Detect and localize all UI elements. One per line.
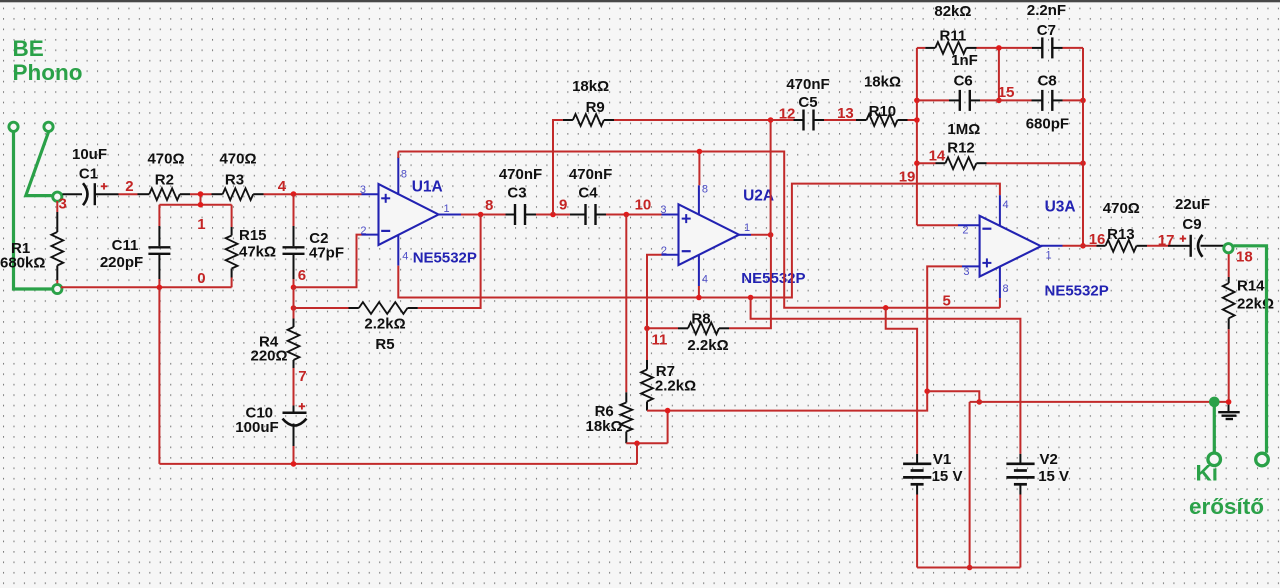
wire node 16 (1063, 245, 1097, 247)
wire node 2 (119, 193, 138, 195)
wire V2 bottom (1019, 495, 1021, 568)
wire junction down to rail (636, 443, 638, 464)
ground branch wire (927, 391, 979, 402)
wire between R2 and R3 (190, 193, 212, 195)
junction dot V- U2A pin4 (696, 295, 702, 301)
C1 plus polarity mark (101, 185, 108, 187)
svg-text:9: 9 (559, 197, 567, 214)
svg-text:4: 4 (1003, 199, 1009, 211)
wire up to R7 ground line (667, 411, 669, 444)
svg-text:Ki: Ki (1196, 461, 1219, 486)
svg-text:680pF: 680pF (1026, 116, 1069, 133)
svg-text:47kΩ: 47kΩ (239, 244, 276, 261)
wire node 10 (606, 214, 662, 216)
svg-text:C11: C11 (112, 237, 139, 254)
connector Ki ground terminal (1208, 453, 1221, 466)
svg-text:470Ω: 470Ω (147, 151, 184, 168)
svg-text:2.2kΩ: 2.2kΩ (364, 316, 405, 333)
resistor R13 (470) (1097, 245, 1106, 247)
node 0 rail bottom (159, 463, 637, 465)
wire V1 bottom (916, 495, 918, 568)
svg-text:R3: R3 (225, 172, 244, 189)
ground symbol (1218, 402, 1240, 419)
svg-text:U2A: U2A (743, 187, 774, 204)
battery V1 (15V) (903, 454, 931, 495)
wire node 6 down (293, 287, 295, 308)
wire node 9 up to R9 (553, 120, 563, 215)
node 11 junction dot (644, 326, 650, 332)
capacitor C7 (2.2nF) (999, 47, 1032, 49)
svg-text:U1A: U1A (412, 178, 443, 195)
connector node 18 terminal (1224, 244, 1233, 253)
svg-text:17: 17 (1158, 232, 1175, 249)
capacitor C10 (100uF polarized) (293, 406, 295, 413)
svg-text:1: 1 (197, 216, 205, 233)
svg-text:15 V: 15 V (932, 468, 963, 485)
junction dot C6 row left (914, 98, 920, 104)
green junction dot ground connector (1209, 397, 1220, 408)
svg-text:3: 3 (660, 204, 666, 216)
svg-text:18kΩ: 18kΩ (864, 74, 901, 91)
svg-text:C6: C6 (954, 72, 973, 89)
capacitor C2 (47pF) (293, 194, 295, 226)
EQ network right vertical (1082, 48, 1084, 246)
svg-text:NE5532P: NE5532P (1045, 283, 1109, 300)
svg-text:3: 3 (963, 266, 969, 278)
svg-text:4: 4 (702, 274, 708, 286)
capacitor C11 (220pF) (158, 205, 160, 226)
svg-text:8: 8 (401, 169, 407, 181)
svg-text:NE5532P: NE5532P (741, 270, 805, 287)
junction dot R6 bottom (634, 441, 640, 447)
svg-text:Phono: Phono (13, 60, 83, 85)
wire node 9 (536, 214, 570, 216)
svg-text:0: 0 (197, 270, 205, 287)
connector Ki signal terminal (1256, 453, 1269, 466)
svg-text:R9: R9 (586, 99, 605, 116)
wire node 4 to U1A +input (264, 193, 362, 195)
svg-text:18kΩ: 18kΩ (586, 418, 623, 435)
svg-text:erősítő: erősítő (1189, 494, 1264, 519)
op-amp U1A (NE5532P) (362, 157, 462, 266)
svg-text:R14: R14 (1237, 278, 1265, 295)
svg-text:10uF: 10uF (72, 146, 107, 163)
svg-text:2: 2 (962, 225, 968, 237)
svg-text:4: 4 (402, 250, 408, 262)
resistor R8 (2.2k) (719, 327, 729, 329)
connector node 0 terminal (53, 284, 62, 293)
wire node 18 green (1234, 246, 1267, 453)
svg-text:1: 1 (444, 203, 450, 215)
C10 plus polarity mark (299, 405, 306, 407)
svg-text:1: 1 (744, 222, 750, 234)
svg-text:C7: C7 (1037, 22, 1056, 39)
node 0 junction dot at C10 (291, 461, 297, 467)
resistor R15 (231, 205, 233, 227)
wire battery mid to ground rail (969, 402, 971, 568)
svg-text:R15: R15 (239, 227, 267, 244)
junction dot ground at 979 (977, 399, 983, 405)
junction dot 15 top (996, 45, 1002, 51)
battery bottom rail (917, 567, 1020, 569)
svg-text:10: 10 (635, 197, 652, 214)
svg-text:2.2kΩ: 2.2kΩ (655, 378, 696, 395)
junction dot ground R14 (1226, 399, 1232, 405)
svg-text:R2: R2 (155, 172, 174, 189)
wire U3A +input node 5 (927, 266, 962, 410)
svg-text:2.2nF: 2.2nF (1027, 2, 1066, 19)
capacitor C6 (1nF) (917, 99, 949, 101)
svg-text:C3: C3 (507, 184, 526, 201)
node 0 ground rail left (61, 286, 232, 288)
wire input diagonal green (26, 132, 52, 196)
junction dot node 16 (1080, 243, 1086, 249)
wire node 17 (1147, 245, 1168, 247)
svg-text:8: 8 (485, 197, 493, 214)
svg-text:19: 19 (899, 169, 916, 186)
node 4 junction dot (291, 191, 297, 197)
resistor R7 (2.2k) (646, 328, 648, 360)
junction dot node5/ground branch (924, 388, 930, 394)
resistor R11 (82k) (917, 47, 925, 49)
op-amp U2A (NE5532P) (662, 185, 752, 286)
svg-text:2: 2 (360, 225, 366, 237)
resistor R6 (18k) (625, 215, 627, 393)
svg-text:470nF: 470nF (786, 76, 829, 93)
green wire ground connector (1213, 402, 1216, 452)
node 12 junction dot (768, 117, 774, 123)
junction dot C8 right (1080, 98, 1086, 104)
capacitor C4 (470nF) (570, 214, 585, 216)
wire node 8 feedback down (418, 215, 481, 309)
wire V+ to battery V1 (886, 308, 917, 454)
wire U2A output (751, 234, 771, 236)
C9 plus polarity mark (1180, 238, 1187, 240)
svg-text:100uF: 100uF (235, 419, 278, 436)
svg-text:2: 2 (125, 178, 133, 195)
svg-text:11: 11 (652, 332, 668, 349)
svg-text:NE5532P: NE5532P (413, 249, 477, 266)
junction dot 15 bottom (996, 98, 1002, 104)
wire input left green (14, 132, 52, 290)
ground rail to output connector (970, 401, 1229, 403)
capacitor C1 (10uF polarized) (63, 193, 83, 195)
node 0 junction dot at C11 (157, 285, 163, 291)
svg-text:470Ω: 470Ω (219, 151, 256, 168)
wire node 12 vertical (770, 120, 772, 235)
svg-text:82kΩ: 82kΩ (934, 3, 971, 20)
resistor R2 (138, 193, 150, 195)
junction dot V- to V2 (748, 295, 754, 301)
battery V2 (15V) (1006, 454, 1034, 495)
svg-text:220Ω: 220Ω (251, 348, 288, 365)
wire node 7 (293, 368, 295, 406)
capacitor C9 (22uF polarized) (1181, 245, 1190, 247)
svg-text:7: 7 (298, 368, 306, 385)
resistor R3 (212, 193, 223, 195)
svg-text:470Ω: 470Ω (1103, 200, 1140, 217)
wire U3A -input (917, 224, 958, 226)
svg-text:470nF: 470nF (569, 166, 612, 183)
svg-text:8: 8 (702, 184, 708, 196)
node 10 junction dot (624, 212, 630, 218)
junction dot ground line (665, 408, 671, 414)
junction dot R12 row left (914, 160, 920, 166)
node 8 wire (461, 214, 506, 216)
capacitor C3 (470nF) (506, 214, 515, 216)
capacitor C5 (470nF) (794, 119, 804, 121)
wire U2A output down to R8 (729, 235, 771, 328)
node 1 wire box top (159, 204, 231, 206)
U2A output junction dot (768, 232, 774, 238)
junction dot R12 right (1080, 160, 1086, 166)
svg-text:C1: C1 (79, 165, 98, 182)
junction row1/node1 stub (200, 194, 202, 205)
svg-text:R8: R8 (691, 310, 710, 327)
svg-text:R12: R12 (947, 140, 975, 157)
node 9 junction dot (550, 212, 556, 218)
svg-text:47pF: 47pF (309, 245, 344, 262)
connector J1 pin top-left (9, 122, 18, 131)
node 1 junction dot (198, 202, 204, 208)
svg-text:6: 6 (298, 267, 306, 284)
junction dot R10 tap (914, 117, 920, 123)
top border frame line (0, 0, 1280, 2)
U1A pin8 wire (397, 152, 399, 159)
svg-text:22uF: 22uF (1175, 196, 1210, 213)
wire node 6 to U1A -input (294, 235, 362, 288)
node 0 rail vertical left (158, 287, 160, 464)
wire R9 to node 12 (614, 119, 771, 121)
connector J1 pin top-right (44, 122, 53, 131)
svg-text:V2: V2 (1040, 451, 1058, 468)
svg-text:220pF: 220pF (100, 254, 143, 271)
svg-text:14: 14 (929, 148, 946, 165)
EQ network left vertical (916, 48, 918, 225)
svg-text:15 V: 15 V (1038, 468, 1069, 485)
svg-text:C9: C9 (1182, 216, 1201, 233)
svg-text:C8: C8 (1038, 72, 1057, 89)
svg-text:2: 2 (661, 245, 667, 257)
wire U2A -input to node 11 (647, 255, 662, 329)
svg-text:2.2kΩ: 2.2kΩ (687, 337, 728, 354)
svg-text:18: 18 (1236, 249, 1253, 266)
svg-text:1nF: 1nF (951, 52, 978, 69)
junction dot V+ battery tap (883, 305, 889, 311)
junction dot battery mid (967, 565, 973, 571)
U2A pin8 wire (698, 152, 700, 186)
svg-text:3: 3 (59, 196, 67, 213)
svg-text:U3A: U3A (1045, 198, 1076, 215)
wire node 13 (824, 119, 856, 121)
wire R6 bottom to ground net (626, 442, 667, 444)
svg-text:3: 3 (360, 184, 366, 196)
resistor R14 (22k) (1228, 252, 1230, 278)
svg-text:R11: R11 (940, 28, 967, 45)
svg-text:BE: BE (13, 36, 44, 61)
svg-text:R10: R10 (869, 103, 897, 120)
svg-text:8: 8 (1003, 283, 1009, 295)
resistor R4 (220 ohm) (293, 308, 295, 319)
svg-text:15: 15 (998, 84, 1015, 101)
node 6 to R5 junction dot (291, 305, 297, 311)
wire V- rail to battery V2 (751, 298, 1021, 454)
node 15 vertical wire (998, 48, 1000, 101)
svg-text:18kΩ: 18kΩ (572, 78, 609, 95)
capacitor C8 (680pF) (1032, 99, 1043, 101)
wire node 12 to C5 (771, 119, 794, 121)
svg-text:R13: R13 (1107, 226, 1135, 243)
node 8 junction dot (478, 212, 484, 218)
op-amp U3A (NE5532P) (958, 195, 1063, 298)
connector node 3 terminal (53, 192, 62, 201)
svg-text:R5: R5 (375, 336, 394, 353)
svg-text:1MΩ: 1MΩ (947, 121, 980, 138)
svg-text:C4: C4 (578, 184, 598, 201)
resistor R5 (2.2k feedback) (408, 307, 418, 309)
resistor R9 (18k) (563, 119, 573, 121)
svg-text:1: 1 (1046, 250, 1052, 262)
resistor R12 (1M) (917, 162, 936, 164)
U2A pin4 wire (698, 286, 700, 298)
node 6 junction dot (291, 285, 297, 291)
wire R10 to EQ network (908, 119, 917, 121)
svg-text:22kΩ: 22kΩ (1237, 295, 1274, 312)
svg-text:V1: V1 (933, 451, 951, 468)
svg-text:470nF: 470nF (499, 166, 542, 183)
U3A pin8 wire (999, 298, 1001, 308)
svg-text:C5: C5 (798, 94, 817, 111)
svg-text:5: 5 (943, 293, 951, 310)
resistor R1 (56, 201, 58, 212)
V- rail (398, 184, 1000, 298)
svg-text:680kΩ: 680kΩ (0, 255, 45, 272)
resistor R10 (18k) (856, 119, 867, 121)
junction dot V+ U2A pin8 (697, 149, 703, 155)
V+ rail top (398, 152, 1000, 308)
ground line R7 bottom (647, 410, 927, 412)
svg-text:4: 4 (278, 178, 287, 195)
